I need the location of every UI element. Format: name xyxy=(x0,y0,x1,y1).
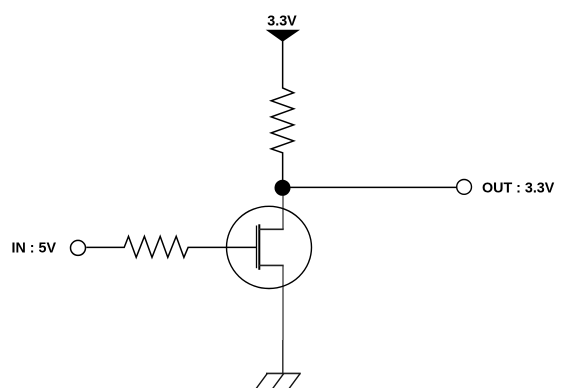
svg-text:3.3V: 3.3V xyxy=(267,14,297,30)
svg-text:OUT : 3.3V: OUT : 3.3V xyxy=(482,181,555,197)
svg-text:IN : 5V: IN : 5V xyxy=(12,241,57,257)
